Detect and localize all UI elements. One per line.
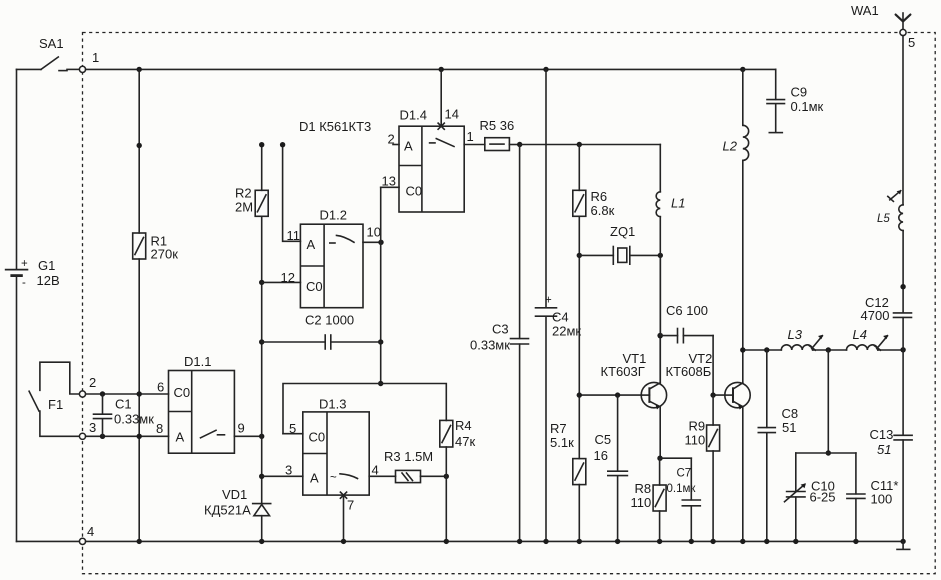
junction C10/ground bbox=[793, 539, 798, 544]
junction R1/ground bbox=[137, 539, 142, 544]
svg-text:КД521А: КД521А bbox=[204, 503, 251, 518]
svg-text:D1.2: D1.2 bbox=[320, 208, 347, 223]
svg-text:2M: 2M bbox=[235, 200, 253, 215]
wire pin 4 to R3 bbox=[369, 475, 395, 477]
junction R8/ground bbox=[657, 539, 662, 544]
junction rail/pin14 bbox=[439, 67, 444, 72]
wire VT2 base branch bbox=[713, 336, 725, 396]
svg-text:D1 К561КТ3: D1 К561КТ3 bbox=[299, 119, 371, 134]
quartz crystal ZQ1 bbox=[579, 247, 660, 265]
junction rail/R1 bbox=[137, 67, 142, 72]
wire D1.1 pin 9 output bbox=[234, 435, 261, 437]
wire pin 7 to ground bbox=[343, 495, 345, 541]
svg-text:0.33мк: 0.33мк bbox=[114, 412, 154, 427]
node dot pin11 top bbox=[280, 142, 285, 147]
wire R3 to R4 bbox=[421, 475, 447, 477]
wire R9 to ground bbox=[712, 451, 714, 541]
wire VT1 collector bbox=[659, 336, 661, 383]
svg-text:~: ~ bbox=[330, 472, 337, 484]
wire pin 12 bbox=[262, 281, 301, 283]
junction R6/ZQ1 bbox=[577, 253, 582, 258]
junction bus/pin12 bbox=[259, 280, 264, 285]
junction L4/C12 bbox=[900, 347, 905, 352]
wire VT2 collector bbox=[742, 350, 744, 383]
junction R4/ground bbox=[444, 539, 449, 544]
wire pin 2 stub bbox=[393, 144, 399, 146]
junction C5/base bbox=[615, 392, 620, 397]
junction C1 bottom bbox=[100, 434, 105, 439]
chassis ground stub bbox=[897, 541, 910, 549]
wire R5 output bbox=[509, 144, 519, 146]
junction C4/ground bbox=[543, 539, 548, 544]
resistor R1 bbox=[133, 233, 146, 259]
capacitor C13 bbox=[894, 435, 912, 541]
svg-text:4: 4 bbox=[87, 524, 94, 539]
wire pin 1 to R5 bbox=[464, 144, 485, 146]
junction pin9/bus bbox=[259, 434, 264, 439]
svg-text:C6 100: C6 100 bbox=[666, 303, 708, 318]
svg-text:A: A bbox=[404, 139, 413, 154]
svg-text:0.1мк: 0.1мк bbox=[667, 483, 697, 495]
wire L1 to C6 node bbox=[659, 255, 661, 335]
trimmer capacitor C10 bbox=[785, 453, 807, 541]
wire C10 C11 feed bbox=[827, 350, 829, 453]
resistor R9 bbox=[707, 425, 720, 451]
junction C3/ground bbox=[517, 539, 522, 544]
junction base/R9 bbox=[710, 392, 715, 397]
wire VT1 emitter bbox=[659, 407, 661, 459]
terminal 5 bbox=[900, 29, 906, 35]
antenna WA1 bbox=[896, 13, 911, 29]
svg-text:14: 14 bbox=[445, 107, 459, 122]
junction ground end bbox=[900, 539, 905, 544]
svg-text:A: A bbox=[310, 471, 319, 486]
svg-text:L4: L4 bbox=[853, 327, 867, 342]
analog switch D1.2 bbox=[300, 224, 363, 308]
svg-text:10: 10 bbox=[367, 225, 381, 240]
svg-text:270к: 270к bbox=[151, 247, 179, 262]
junction L5/C12 bbox=[900, 284, 905, 289]
junction rail/L2 bbox=[740, 67, 745, 72]
svg-text:100: 100 bbox=[871, 492, 893, 507]
svg-text:C3: C3 bbox=[492, 322, 509, 337]
analog switch D1.1 bbox=[169, 371, 235, 454]
junction VD1/ground bbox=[259, 539, 264, 544]
terminal 3 bbox=[79, 433, 85, 439]
analog switch D1.3 bbox=[303, 412, 369, 495]
svg-text:7: 7 bbox=[347, 498, 354, 513]
wire ground bus bottom bbox=[17, 540, 904, 542]
pin 14 X mark bbox=[438, 123, 444, 129]
switch SA1 bbox=[17, 57, 80, 71]
inductor L5 bbox=[888, 190, 903, 231]
junction R1/pin6 bbox=[137, 391, 142, 396]
svg-text:C0: C0 bbox=[174, 385, 191, 400]
junction C5/ground bbox=[615, 539, 620, 544]
junction R1/pin8 bbox=[137, 434, 142, 439]
svg-text:16: 16 bbox=[594, 448, 608, 463]
svg-text:D1.1: D1.1 bbox=[184, 354, 211, 369]
terminal 4 bbox=[79, 538, 85, 544]
diode VD1 bbox=[253, 504, 271, 542]
svg-text:КТ603Г: КТ603Г bbox=[601, 364, 645, 379]
svg-text:+: + bbox=[545, 295, 552, 307]
capacitor C3 bbox=[511, 145, 529, 542]
wire bus B vertical bbox=[380, 187, 382, 383]
svg-text:ZQ1: ZQ1 bbox=[610, 224, 635, 239]
wire L5 to C12 bbox=[902, 231, 904, 313]
junction VT2 emitter/ground bbox=[740, 539, 745, 544]
junction C7/ground bbox=[689, 539, 694, 544]
capacitor C1 bbox=[94, 394, 112, 436]
svg-text:D1.4: D1.4 bbox=[400, 108, 427, 123]
capacitor C9 bbox=[743, 69, 785, 132]
svg-text:R6: R6 bbox=[591, 189, 608, 204]
resistor R2 bbox=[255, 190, 268, 216]
wire output tank rail bbox=[743, 349, 903, 351]
wire to R9 bbox=[712, 395, 714, 425]
capacitor C8 bbox=[758, 350, 775, 541]
wire emitter to R8 bbox=[659, 458, 661, 485]
wire VT1 base bbox=[579, 394, 641, 396]
svg-text:11: 11 bbox=[287, 228, 301, 243]
junction C1 top bbox=[100, 391, 105, 396]
junction C11/ground bbox=[853, 539, 858, 544]
wire D1.2 pin 10 output bbox=[363, 241, 381, 243]
wire pin 3 bbox=[262, 475, 303, 477]
svg-text:L3: L3 bbox=[788, 327, 803, 342]
resistor R3 bbox=[396, 470, 421, 482]
wire +12V top rail bbox=[86, 68, 743, 70]
svg-text:4700: 4700 bbox=[861, 308, 890, 323]
wire antenna down bbox=[902, 36, 904, 205]
transistor VT2 bbox=[725, 382, 750, 409]
junction rail/C4 bbox=[543, 67, 548, 72]
svg-text:R4: R4 bbox=[455, 418, 472, 433]
svg-text:4: 4 bbox=[372, 463, 379, 478]
junction R6 top bbox=[577, 142, 582, 147]
terminal 2 bbox=[79, 391, 85, 397]
svg-text:F1: F1 bbox=[48, 397, 63, 412]
inductor L2 bbox=[743, 69, 749, 350]
svg-text:51: 51 bbox=[782, 420, 796, 435]
junction L2/VT2 collector bbox=[740, 347, 745, 352]
svg-text:0.1мк: 0.1мк bbox=[791, 99, 824, 114]
junction emitter/C7 bbox=[657, 456, 662, 461]
node dot on R1 wire bbox=[137, 143, 142, 148]
svg-text:C0: C0 bbox=[406, 184, 423, 199]
junction R3/R4 bbox=[444, 474, 449, 479]
battery G1 bbox=[5, 69, 29, 541]
svg-text:3: 3 bbox=[285, 463, 292, 478]
junction R7/ground bbox=[577, 539, 582, 544]
wire pin 5 bbox=[283, 433, 303, 435]
svg-text:12: 12 bbox=[281, 270, 295, 285]
svg-text:R9: R9 bbox=[689, 419, 706, 434]
svg-text:L5: L5 bbox=[877, 213, 890, 225]
wire VT2 emitter bbox=[742, 407, 744, 542]
svg-text:VD1: VD1 bbox=[222, 487, 247, 502]
junction busB/osc loop bbox=[378, 381, 383, 386]
wire R1 lower bbox=[138, 259, 140, 541]
inductor L1 bbox=[656, 145, 660, 383]
resistor R7 bbox=[573, 459, 586, 485]
svg-text:C2 1000: C2 1000 bbox=[305, 313, 354, 328]
junction R7/base bbox=[577, 392, 582, 397]
svg-text:5: 5 bbox=[908, 35, 915, 50]
resistor R8 bbox=[653, 485, 666, 511]
wire R8 to ground bbox=[659, 511, 661, 541]
svg-text:G1: G1 bbox=[38, 258, 55, 273]
resistor R4 bbox=[440, 420, 453, 447]
svg-text:C0: C0 bbox=[309, 430, 326, 445]
wire bus R2 upper with end dot bbox=[261, 145, 263, 191]
analog switch D1.4 bbox=[399, 126, 464, 212]
svg-text:12В: 12В bbox=[37, 273, 60, 288]
svg-text:-: - bbox=[22, 277, 26, 289]
svg-text:+: + bbox=[21, 258, 28, 270]
capacitor C11 bbox=[847, 453, 865, 541]
svg-text:47к: 47к bbox=[455, 434, 475, 449]
svg-text:1: 1 bbox=[467, 129, 474, 144]
svg-text:C13: C13 bbox=[870, 427, 894, 442]
svg-text:8: 8 bbox=[156, 421, 163, 436]
svg-text:R5 36: R5 36 bbox=[480, 118, 515, 133]
svg-text:A: A bbox=[307, 237, 316, 252]
svg-text:SA1: SA1 bbox=[39, 36, 64, 51]
wire pin 11 branch with end dot bbox=[283, 145, 301, 242]
junction ZQ1/L1 bbox=[658, 253, 663, 258]
svg-text:3: 3 bbox=[89, 420, 96, 435]
junction C8/ground bbox=[764, 539, 769, 544]
svg-text:51: 51 bbox=[877, 442, 891, 457]
svg-text:A: A bbox=[176, 430, 185, 445]
wire mic bottom to D1.1 pin 8 bbox=[86, 435, 169, 437]
junction pin10/busB bbox=[378, 240, 383, 245]
capacitor C5 bbox=[608, 395, 628, 541]
svg-text:КТ608Б: КТ608Б bbox=[666, 364, 712, 379]
svg-text:C0: C0 bbox=[306, 279, 323, 294]
svg-text:110: 110 bbox=[631, 495, 652, 510]
wire R1 branch bbox=[138, 69, 140, 233]
wire R4 lower bbox=[445, 447, 447, 541]
junction C10 feed bbox=[826, 347, 831, 352]
inductor L3 bbox=[781, 335, 823, 350]
wire oscillator supply horizontal bbox=[520, 144, 661, 146]
wire bus below R2 bbox=[261, 216, 263, 503]
wire pin 13 bbox=[381, 186, 399, 188]
svg-text:C7: C7 bbox=[677, 468, 692, 480]
capacitor C12 bbox=[894, 313, 912, 435]
pin 7 X mark bbox=[340, 492, 346, 498]
capacitor C4 electrolytic bbox=[536, 69, 557, 541]
junction bus/pin3 bbox=[259, 474, 264, 479]
svg-text:5.1к: 5.1к bbox=[550, 435, 574, 450]
wire oscillator loop horizontal bbox=[283, 384, 446, 434]
svg-text:22мк: 22мк bbox=[552, 324, 581, 339]
junction bus/C2 left bbox=[259, 339, 264, 344]
junction busB/C2 right bbox=[378, 339, 383, 344]
inductor L4 bbox=[847, 335, 889, 350]
wire pin 14 bbox=[440, 69, 442, 126]
junction collector/C6 bbox=[657, 333, 663, 339]
capacitor C6 bbox=[660, 329, 713, 343]
svg-text:13: 13 bbox=[382, 174, 396, 189]
svg-text:C1: C1 bbox=[115, 397, 132, 412]
svg-text:6-25: 6-25 bbox=[810, 490, 836, 505]
junction R5/C3 bbox=[517, 142, 522, 147]
svg-text:D1.3: D1.3 bbox=[319, 397, 346, 412]
svg-text:1: 1 bbox=[92, 50, 99, 65]
junction R9/ground bbox=[710, 539, 715, 544]
junction feed/top bbox=[826, 450, 831, 455]
svg-text:L2: L2 bbox=[723, 139, 738, 154]
svg-text:C8: C8 bbox=[782, 406, 799, 421]
transistor VT1 bbox=[641, 382, 666, 409]
wire R6 R7 branch bbox=[578, 145, 580, 542]
svg-text:2: 2 bbox=[89, 375, 96, 390]
svg-text:9: 9 bbox=[238, 421, 245, 436]
node dot R2 top bbox=[259, 142, 264, 147]
svg-text:C5: C5 bbox=[595, 432, 612, 447]
svg-text:L1: L1 bbox=[671, 196, 685, 211]
svg-text:6.8к: 6.8к bbox=[591, 203, 615, 218]
svg-text:C4: C4 bbox=[552, 310, 569, 325]
svg-text:R3 1.5M: R3 1.5M bbox=[384, 449, 433, 464]
svg-text:C9: C9 bbox=[791, 85, 808, 100]
svg-text:R7: R7 bbox=[550, 421, 567, 436]
microphone F1 bbox=[29, 362, 82, 436]
svg-text:110: 110 bbox=[685, 433, 706, 448]
svg-text:R2: R2 bbox=[235, 186, 252, 201]
capacitor C2 bbox=[262, 335, 381, 349]
junction pin7/ground bbox=[341, 539, 346, 544]
resistor R6 bbox=[573, 190, 586, 216]
wire C10 C11 top bbox=[796, 452, 856, 454]
svg-text:WA1: WA1 bbox=[851, 3, 879, 18]
terminal 1 bbox=[79, 66, 85, 72]
junction C8 top bbox=[764, 347, 769, 352]
svg-text:0.33мк: 0.33мк bbox=[470, 338, 510, 353]
capacitor C7 bbox=[660, 458, 700, 541]
resistor R5 bbox=[485, 138, 510, 151]
svg-text:6: 6 bbox=[157, 380, 164, 395]
wire mic top to D1.1 pin 6 bbox=[86, 393, 169, 395]
svg-text:R8: R8 bbox=[635, 481, 652, 496]
